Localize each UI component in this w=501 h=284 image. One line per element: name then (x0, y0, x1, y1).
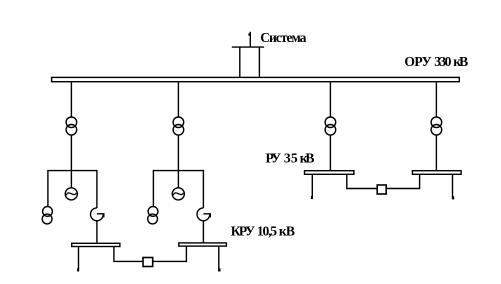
svg-text:кВ: кВ (300, 151, 315, 166)
svg-text:Система: Система (260, 30, 306, 45)
svg-text:КРУ: КРУ (231, 224, 255, 239)
svg-text:35: 35 (284, 151, 298, 166)
svg-text:кВ: кВ (453, 54, 468, 69)
svg-text:ОРУ: ОРУ (404, 54, 431, 69)
svg-text:330: 330 (434, 54, 451, 69)
svg-text:кВ: кВ (279, 224, 295, 239)
svg-text:РУ: РУ (266, 151, 282, 166)
svg-text:10,5: 10,5 (257, 224, 277, 239)
